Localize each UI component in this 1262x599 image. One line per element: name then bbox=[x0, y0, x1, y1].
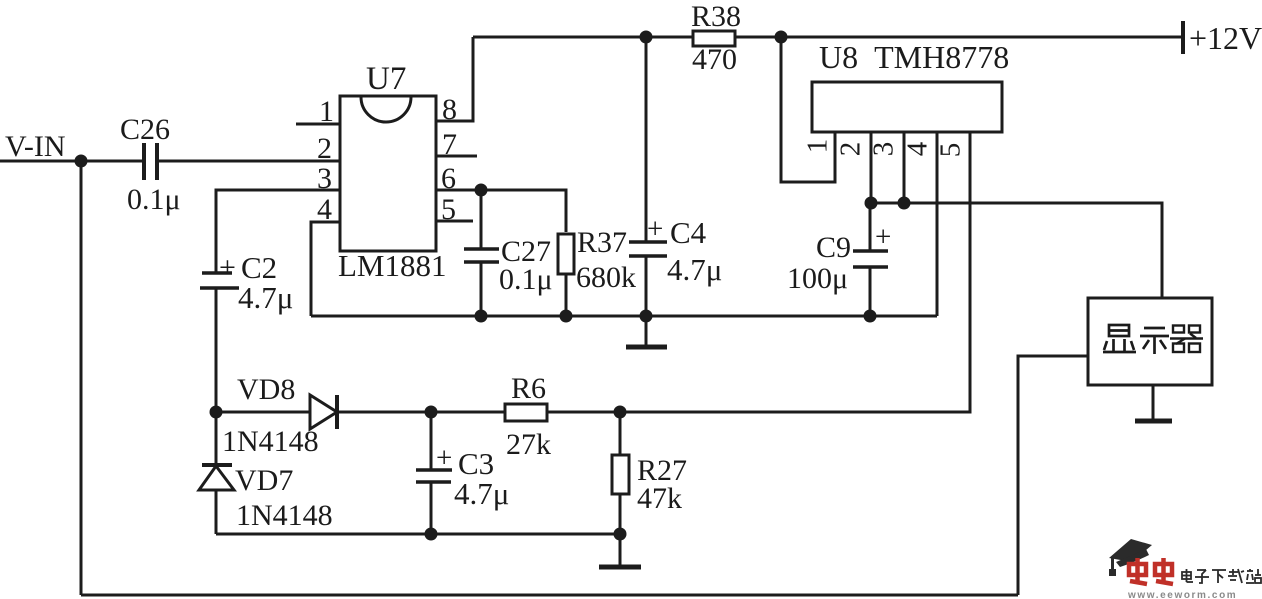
wire C2 lower lead to VD8 node bbox=[215, 288, 218, 412]
wire C4 lower lead bbox=[645, 256, 648, 316]
hanzi 显 (display label char 1) bbox=[1103, 325, 1136, 352]
wire VD7 to bottom of divider bbox=[215, 490, 218, 534]
node dot C3 bottom bbox=[425, 528, 438, 541]
node dot rail R37 bbox=[560, 310, 573, 323]
wire R37 lower lead bbox=[565, 274, 568, 316]
svg-text:C26: C26 bbox=[120, 113, 170, 146]
capacitor C4 bbox=[629, 242, 667, 256]
capacitor C2 bbox=[200, 273, 239, 288]
wire bottom rail bbox=[81, 594, 1018, 597]
svg-text:4.7μ: 4.7μ bbox=[454, 476, 509, 511]
svg-text:+: + bbox=[647, 213, 663, 245]
svg-text:1N4148: 1N4148 bbox=[222, 425, 319, 458]
svg-text:680k: 680k bbox=[576, 261, 636, 294]
ground below C4 bbox=[626, 345, 667, 350]
resistor R38 bbox=[693, 31, 735, 46]
wire C3 upper lead bbox=[430, 412, 433, 470]
capacitor C9 bbox=[853, 251, 888, 267]
svg-text:+: + bbox=[436, 442, 452, 474]
diode VD7 bbox=[199, 465, 234, 490]
wire top rail left of R38 bbox=[473, 36, 693, 39]
wire VD7 top lead bbox=[215, 412, 218, 466]
logo hanzi 子 bbox=[1195, 570, 1209, 583]
node dot R27 top bbox=[614, 406, 627, 419]
logo graduation cap bbox=[1109, 539, 1152, 576]
wire R27 ground lead bbox=[619, 534, 622, 566]
wire C26 to U7 pin2 bbox=[158, 160, 340, 163]
svg-text:2: 2 bbox=[835, 142, 867, 157]
hanzi 器 (display label char 3) bbox=[1170, 326, 1203, 353]
wire U7 pin6 to R37 bbox=[436, 190, 566, 232]
wire C27 upper lead bbox=[480, 190, 483, 249]
wire U7 pin3 to C2 bbox=[216, 190, 340, 273]
svg-text:470: 470 bbox=[692, 43, 737, 76]
wire U8 pin1 to top rail bbox=[781, 37, 835, 182]
wire VD8 node to diode bbox=[216, 411, 310, 414]
node dot rail C4 bbox=[640, 310, 653, 323]
svg-text:4: 4 bbox=[317, 193, 332, 226]
svg-text:3: 3 bbox=[868, 142, 900, 157]
svg-text:3: 3 bbox=[317, 162, 332, 195]
wire C9 upper lead bbox=[869, 203, 872, 251]
svg-text:8: 8 bbox=[442, 93, 457, 126]
wire display left stub to bottom rail bbox=[1018, 356, 1088, 595]
svg-text:7: 7 bbox=[442, 128, 457, 161]
node dot V-IN junction bbox=[75, 155, 88, 168]
wire mid ground rail bbox=[311, 315, 937, 318]
svg-text:100μ: 100μ bbox=[787, 262, 848, 295]
wire U8 pin3 leg bbox=[903, 132, 906, 203]
wire divider bottom rail bbox=[216, 533, 620, 536]
node dot VD8 anode bbox=[210, 406, 223, 419]
resistor R27 bbox=[612, 455, 629, 494]
svg-text:+: + bbox=[219, 251, 236, 284]
wire R27 lower lead bbox=[619, 494, 622, 534]
logo hanzi 下 bbox=[1212, 570, 1226, 583]
capacitor C3 bbox=[416, 470, 452, 482]
node dot R27 bottom bbox=[614, 528, 627, 541]
wire U7 pin8 to top rail bbox=[436, 37, 473, 121]
svg-text:U7: U7 bbox=[366, 61, 406, 97]
wire C4 upper lead bbox=[645, 37, 648, 242]
svg-text:www.eeworm.com: www.eeworm.com bbox=[1127, 590, 1237, 599]
svg-text:VD8: VD8 bbox=[237, 373, 295, 406]
op-amp U7 IC body LM1881 bbox=[340, 96, 436, 251]
svg-text:R6: R6 bbox=[511, 372, 546, 405]
wire C3 lower lead bbox=[430, 482, 433, 534]
wire V-IN input bbox=[0, 160, 143, 163]
svg-text:0.1μ: 0.1μ bbox=[127, 183, 181, 216]
svg-text:1: 1 bbox=[319, 95, 334, 128]
svg-text:27k: 27k bbox=[506, 428, 551, 461]
ground below R27 bbox=[599, 565, 641, 570]
node dot rail C9 bbox=[864, 310, 877, 323]
svg-text:4.7μ: 4.7μ bbox=[238, 280, 293, 315]
wire C27 lower lead bbox=[480, 262, 483, 316]
svg-text:C9: C9 bbox=[816, 231, 851, 264]
svg-text:4.7μ: 4.7μ bbox=[667, 252, 722, 287]
wire U8 pin2 leg bbox=[870, 132, 873, 203]
wire U7 pin1 stub bbox=[296, 123, 340, 126]
node dot pin6 C27 bbox=[475, 184, 488, 197]
wire U7 pin7 stub bbox=[436, 155, 477, 158]
svg-text:1N4148: 1N4148 bbox=[236, 499, 333, 532]
svg-text:R38: R38 bbox=[691, 0, 741, 33]
wire C9 lower lead bbox=[869, 267, 872, 316]
logo hanzi 站 bbox=[1246, 569, 1261, 583]
svg-text:5: 5 bbox=[441, 193, 456, 226]
svg-text:U8 TMH8778: U8 TMH8778 bbox=[819, 39, 1009, 75]
wire U7 pin5 stub bbox=[436, 220, 473, 223]
wire U7 pin4 stub and drop bbox=[311, 222, 340, 316]
svg-text:0.1μ: 0.1μ bbox=[499, 263, 553, 296]
wire U8 pin4 leg bbox=[936, 132, 939, 316]
ground below display bbox=[1135, 419, 1172, 424]
node dot U8 pin3 bbox=[898, 197, 911, 210]
svg-text:R37: R37 bbox=[577, 226, 627, 259]
svg-text:4: 4 bbox=[902, 141, 934, 156]
svg-text:+12V: +12V bbox=[1189, 20, 1262, 56]
resistor R6 bbox=[505, 404, 547, 421]
logo hanzi 载 bbox=[1228, 569, 1244, 583]
capacitor C26 bbox=[144, 143, 157, 180]
wire display ground lead bbox=[1152, 385, 1155, 419]
svg-text:C4: C4 bbox=[670, 215, 707, 250]
resistor R37 bbox=[558, 234, 574, 274]
logo hanzi 电 bbox=[1182, 569, 1193, 582]
svg-text:V-IN: V-IN bbox=[5, 130, 66, 163]
node dot rail C27 bbox=[475, 310, 488, 323]
wire top rail right of R38 bbox=[735, 36, 1183, 39]
display box 显示器 bbox=[1088, 298, 1212, 385]
svg-text:LM1881: LM1881 bbox=[338, 248, 447, 283]
diode VD8 bbox=[310, 395, 337, 429]
node dot C3 top bbox=[425, 406, 438, 419]
logo hanzi 虫 1 bbox=[1129, 558, 1147, 584]
node dot top rail U8 bbox=[775, 31, 788, 44]
svg-text:6: 6 bbox=[441, 162, 456, 195]
node dot top rail C4 bbox=[640, 31, 653, 44]
wire R6 to U8 pin5 bbox=[547, 132, 970, 412]
wire VD8 cathode to R6 row bbox=[337, 411, 505, 414]
node dot U8 pin2 bbox=[865, 197, 878, 210]
svg-text:5: 5 bbox=[935, 143, 967, 158]
IC U8 TMH8778 body bbox=[812, 82, 1002, 132]
capacitor C27 bbox=[464, 249, 499, 262]
svg-text:1: 1 bbox=[802, 139, 834, 154]
svg-text:47k: 47k bbox=[637, 482, 682, 515]
logo hanzi 虫 2 bbox=[1155, 558, 1173, 584]
wire R27 upper lead bbox=[619, 412, 622, 455]
svg-text:2: 2 bbox=[317, 132, 332, 165]
svg-text:+: + bbox=[875, 221, 891, 253]
power terminal +12V bbox=[1181, 21, 1185, 54]
wire left rail V-IN down bbox=[80, 161, 83, 595]
svg-text:VD7: VD7 bbox=[235, 464, 293, 497]
hanzi 示 (display label char 2) bbox=[1140, 328, 1169, 354]
wire U8 output row to display bbox=[871, 203, 1162, 298]
wire C4 ground lead bbox=[645, 316, 648, 345]
